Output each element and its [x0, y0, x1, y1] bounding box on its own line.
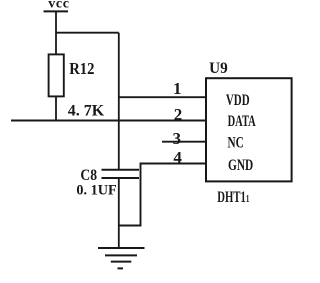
- svg-text:NC: NC: [228, 134, 244, 151]
- capacitor C8: [102, 170, 140, 178]
- svg-text:R12: R12: [69, 60, 94, 78]
- wire: [55, 96, 57, 120]
- ground: [98, 248, 145, 268]
- svg-text:DATA: DATA: [228, 112, 256, 130]
- wire: [119, 164, 207, 226]
- svg-text:3: 3: [173, 129, 182, 148]
- wire: [56, 32, 119, 34]
- svg-text:0. 1UF: 0. 1UF: [76, 182, 116, 198]
- wire: [55, 11, 57, 55]
- svg-text:GND: GND: [228, 157, 253, 174]
- svg-text:2: 2: [174, 105, 183, 124]
- vcc symbol: [44, 10, 69, 12]
- wire: [118, 178, 120, 248]
- wire: [118, 33, 120, 170]
- wire: [119, 96, 206, 98]
- svg-text:VDD: VDD: [226, 91, 250, 109]
- wire: [11, 120, 206, 122]
- svg-text:DHT11: DHT11: [217, 188, 249, 206]
- svg-text:4: 4: [173, 148, 182, 167]
- svg-text:1: 1: [173, 79, 182, 98]
- svg-text:vcc: vcc: [48, 0, 69, 11]
- wire: [162, 141, 206, 143]
- svg-text:4. 7K: 4. 7K: [68, 102, 105, 119]
- resistor R12: [49, 54, 64, 96]
- svg-text:U9: U9: [209, 59, 228, 76]
- IC U9: [206, 78, 292, 181]
